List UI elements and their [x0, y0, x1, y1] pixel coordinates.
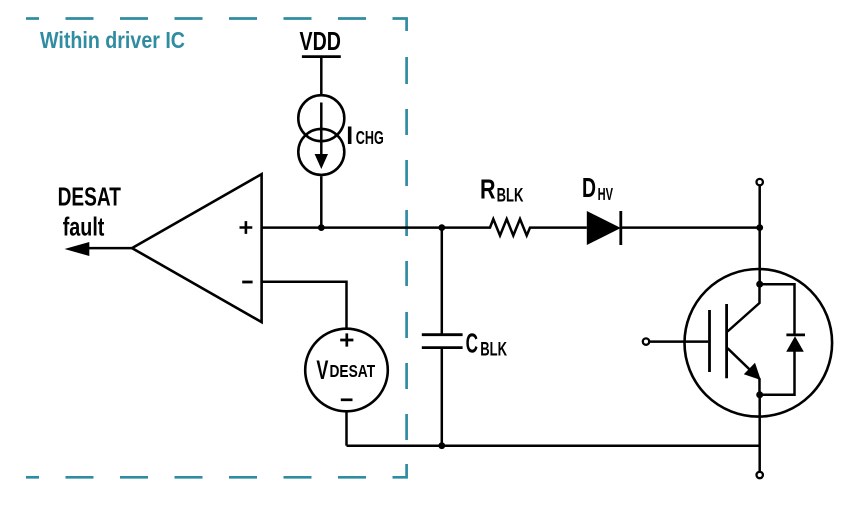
junction dot collector node: [756, 224, 763, 231]
IGBT channel bar: [725, 304, 728, 378]
svg-text:BLK: BLK: [480, 340, 507, 361]
junction dot at C_BLK bottom: [438, 442, 445, 449]
svg-text:Within driver IC: Within driver IC: [40, 27, 185, 53]
svg-text:D: D: [582, 172, 596, 203]
dashed boundary: top-right corner: [393, 19, 407, 32]
dashed boundary: right edge: [405, 57, 408, 440]
IGBT emitter lead with arrow: [728, 348, 760, 395]
svg-text:DESAT: DESAT: [330, 362, 376, 381]
svg-text:I: I: [346, 123, 353, 150]
wire: current source to + node: [320, 176, 323, 227]
dashed boundary: bottom-right corner: [393, 464, 407, 477]
VDD supply bar: [302, 55, 341, 58]
IGBT collector lead: [728, 284, 760, 331]
wire: + input to C_BLK node: [262, 226, 442, 229]
output wire with arrowhead: DESAT fault: [85, 247, 132, 250]
comparator - input mark: [242, 281, 252, 284]
V_DESAT - mark: [341, 398, 353, 401]
resistor R_BLK: [442, 219, 587, 236]
current source I_CHG (two overlapping circles): [298, 95, 344, 141]
svg-text:BLK: BLK: [497, 186, 524, 207]
wire: - input over to V_DESAT: [262, 282, 347, 329]
current source arrow: [320, 103, 323, 156]
svg-text:DESAT: DESAT: [58, 184, 121, 212]
voltage source V_DESAT: [305, 329, 388, 412]
wire: VDD bar to current source: [320, 58, 323, 94]
IGBT gate bar: [708, 310, 711, 372]
svg-text:HV: HV: [598, 184, 614, 204]
dashed boundary: top edge: [26, 19, 407, 478]
gate terminal (open): [643, 338, 649, 344]
capacitor C_BLK: [441, 228, 444, 335]
junction dot at C_BLK top node: [438, 224, 445, 231]
freewheel diode cathode bar: [786, 333, 805, 336]
dashed boundary: bottom edge: [66, 476, 367, 479]
junction dot (collector inside): [756, 281, 763, 288]
svg-text:R: R: [480, 174, 496, 205]
svg-text:C: C: [466, 327, 478, 358]
junction dot (emitter inside): [756, 391, 763, 398]
diode D_HV: [587, 211, 621, 245]
junction dot at + node: [318, 224, 325, 231]
V_DESAT + mark: [340, 333, 353, 346]
svg-text:CHG: CHG: [356, 127, 384, 148]
emitter terminal (open): [757, 472, 763, 478]
gate wire: [649, 340, 708, 343]
freewheel diode branch: [760, 284, 795, 395]
wire: emitter down to terminal: [758, 395, 761, 472]
wire: diode to collector node: [621, 226, 760, 229]
freewheel diode triangle: [786, 336, 804, 352]
bottom rail wire: [347, 444, 760, 447]
comparator + input mark: [240, 221, 253, 234]
transistor Q1 (IGBT) circle: [685, 269, 833, 417]
collector terminal (open): [757, 179, 763, 185]
wire: collector terminal down: [758, 185, 761, 284]
wire: V_DESAT to bottom rail: [345, 412, 348, 446]
svg-text:V: V: [316, 355, 328, 385]
op-amp comparator U1: [132, 174, 262, 322]
svg-text:fault: fault: [63, 214, 105, 242]
svg-text:VDD: VDD: [300, 26, 341, 56]
